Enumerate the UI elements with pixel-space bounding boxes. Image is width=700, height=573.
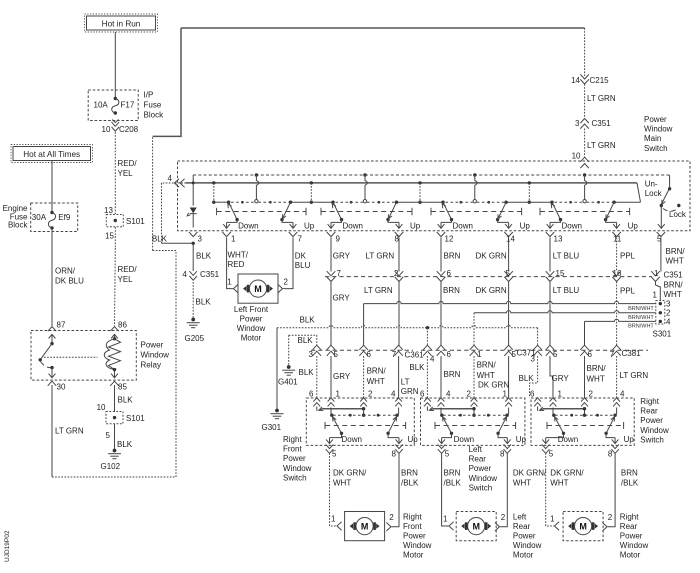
svg-text:F17: F17	[121, 101, 135, 110]
svg-text:2: 2	[394, 269, 399, 278]
svg-text:6: 6	[447, 269, 452, 278]
main switch pin 10 entry	[580, 157, 589, 168]
wire LT GRN C361-7 to RF switch	[399, 356, 419, 398]
svg-text:DK: DK	[295, 251, 307, 260]
svg-text:Right: Right	[620, 512, 639, 521]
svg-text:Switch: Switch	[640, 435, 664, 444]
svg-text:Power: Power	[141, 341, 164, 350]
svg-text:Power: Power	[640, 416, 663, 425]
svg-text:LT: LT	[401, 378, 410, 387]
wire BRN/WHT S301-2 branch	[474, 311, 656, 346]
svg-text:S301: S301	[653, 329, 672, 338]
svg-text:BRN/: BRN/	[664, 281, 684, 290]
un-lock switch	[645, 180, 687, 229]
svg-text:5: 5	[332, 450, 337, 459]
wire BRN/WHT C361-6 to RF switch	[364, 356, 387, 398]
switch common link 5	[614, 201, 640, 203]
door switch bottom pin numbers	[332, 450, 613, 459]
label Right Front Power Window Motor	[403, 512, 432, 559]
svg-text:4: 4	[430, 355, 435, 364]
connector C215	[571, 74, 609, 85]
svg-text:8: 8	[392, 450, 397, 459]
wire BRN/WHT S301-4 branch	[585, 319, 656, 345]
svg-text:LT GRN: LT GRN	[366, 251, 395, 260]
svg-text:Lock: Lock	[669, 210, 687, 219]
wire DK GRN/WHT LR sw to motor	[495, 453, 547, 531]
relay contact	[39, 334, 98, 378]
svg-text:M: M	[472, 521, 480, 531]
svg-text:DK GRN/: DK GRN/	[333, 469, 367, 478]
wire PPL pin11 to C351-16	[617, 238, 636, 272]
svg-text:G401: G401	[278, 377, 298, 386]
svg-text:Window: Window	[644, 125, 673, 134]
svg-text:S101: S101	[126, 217, 145, 226]
svg-text:BLK: BLK	[196, 297, 212, 306]
svg-text:6: 6	[588, 350, 593, 359]
svg-text:WHT: WHT	[666, 257, 684, 266]
junction pins 3+4 BLK	[192, 242, 195, 245]
wire BRN/BLK RR sw to motor	[602, 453, 639, 531]
svg-text:4: 4	[168, 174, 173, 183]
svg-text:8: 8	[500, 450, 505, 459]
splice S301 (dashed box)	[653, 301, 672, 339]
svg-text:BRN/: BRN/	[587, 364, 607, 373]
wire BLK relay 85 to S101	[97, 385, 134, 412]
wire LTBLU pin13 to C351-15	[550, 238, 579, 272]
label Left Rear Power Window Switch	[469, 445, 498, 492]
svg-text:87: 87	[57, 321, 66, 330]
svg-text:Up: Up	[628, 222, 639, 231]
node Hot at All Times	[11, 145, 93, 163]
svg-text:Main: Main	[644, 134, 661, 143]
svg-text:14: 14	[506, 234, 515, 243]
relay pin 87	[48, 321, 66, 332]
svg-text:1: 1	[231, 234, 236, 243]
svg-text:2: 2	[608, 513, 613, 522]
wire LT GRN bottom run	[52, 476, 176, 478]
svg-text:5: 5	[106, 431, 111, 440]
wire BLK C361-3 to RF switch	[299, 356, 317, 398]
switch common link 2	[291, 181, 334, 204]
wire PPL C351-16 to C381-7	[617, 282, 636, 346]
svg-text:Power: Power	[403, 532, 426, 541]
svg-text:BRN: BRN	[621, 469, 638, 478]
svg-text:DK GRN/: DK GRN/	[513, 469, 547, 478]
svg-text:5: 5	[549, 450, 554, 459]
svg-text:RED/: RED/	[118, 265, 138, 274]
wire BRN C351-6 to C371-6	[441, 282, 460, 347]
svg-text:RED/: RED/	[118, 159, 138, 168]
svg-text:Window: Window	[403, 541, 432, 550]
svg-text:BRN: BRN	[401, 469, 418, 478]
svg-text:5: 5	[553, 350, 558, 359]
label Power Window Main Switch	[644, 115, 673, 153]
left front power window motor	[234, 274, 278, 343]
svg-text:M: M	[254, 284, 262, 294]
relay coil	[104, 334, 120, 378]
svg-text:7: 7	[392, 350, 397, 359]
svg-text:4: 4	[182, 270, 187, 279]
svg-text:WHT: WHT	[333, 478, 351, 487]
wire BLK C371-4 to LR switch	[409, 356, 427, 398]
diode inside main switch	[187, 181, 197, 227]
svg-text:Front: Front	[283, 445, 302, 454]
power window main switch (dashed box)	[178, 161, 691, 231]
svg-text:M: M	[579, 521, 587, 531]
svg-text:4: 4	[391, 390, 396, 399]
wire GRY pin9 to C351-7	[331, 238, 351, 272]
svg-text:YEL: YEL	[118, 169, 134, 178]
svg-text:BLK: BLK	[300, 315, 316, 324]
svg-text:10: 10	[97, 403, 106, 412]
svg-text:BRN: BRN	[444, 251, 461, 260]
svg-text:Right: Right	[640, 397, 659, 406]
svg-text:BRN/: BRN/	[367, 366, 387, 375]
svg-text:Block: Block	[8, 221, 29, 230]
connector row C371 (dashed)	[421, 349, 530, 351]
svg-text:BLK: BLK	[299, 368, 315, 377]
wire DKGRN C351-5 to C371-5	[476, 282, 509, 347]
junction BLK to C371-4	[426, 326, 429, 346]
svg-text:Window: Window	[640, 426, 669, 435]
svg-text:C351: C351	[664, 271, 684, 280]
svg-text:3: 3	[666, 299, 671, 308]
bus A right corner	[669, 175, 671, 189]
svg-text:Un-: Un-	[645, 180, 658, 189]
svg-text:/BLK: /BLK	[621, 478, 639, 487]
svg-text:LT GRN: LT GRN	[364, 286, 393, 295]
svg-text:2: 2	[284, 277, 289, 286]
wire LT GRN to top bus	[153, 28, 181, 136]
svg-text:1: 1	[558, 390, 563, 399]
svg-text:Window: Window	[141, 351, 170, 360]
wire BRNWHT C351-1 to S301	[653, 281, 684, 301]
svg-text:2: 2	[368, 390, 373, 399]
svg-text:Down: Down	[558, 435, 578, 444]
wire DK GRN C371-5 to LR switch	[478, 356, 509, 398]
main switch bottom pin arrows and numbers	[189, 232, 665, 243]
svg-text:4: 4	[620, 390, 625, 399]
label Engine Fuse Block	[3, 204, 29, 230]
svg-text:LT GRN: LT GRN	[587, 141, 616, 150]
svg-text:BRN/WHT: BRN/WHT	[628, 324, 654, 330]
svg-text:Down: Down	[454, 435, 474, 444]
svg-text:G301: G301	[262, 423, 282, 432]
svg-text:C351: C351	[592, 119, 612, 128]
svg-text:BLK: BLK	[118, 396, 134, 405]
svg-text:Window: Window	[513, 541, 542, 550]
wire GRY C381-5 to RR switch	[550, 356, 569, 398]
svg-text:UJD19P02: UJD19P02	[4, 530, 11, 562]
svg-text:2: 2	[389, 513, 394, 522]
wire BRN/WHT C371-1 to LR switch	[474, 356, 496, 398]
svg-text:G102: G102	[101, 462, 121, 471]
svg-text:DK GRN/: DK GRN/	[550, 469, 584, 478]
svg-text:Fuse: Fuse	[144, 101, 162, 110]
svg-text:DK GRN: DK GRN	[478, 381, 509, 390]
wire LTBLU C351-15 to C381-5	[550, 282, 579, 347]
label Right Rear Power Window Switch	[640, 397, 669, 444]
wire BLK C351-4 to G205	[193, 282, 211, 319]
svg-text:11: 11	[613, 234, 622, 243]
connector C208	[102, 122, 139, 134]
svg-text:14: 14	[571, 76, 580, 85]
wire LT GRN C215 to C351	[585, 84, 616, 118]
svg-text:Up: Up	[516, 435, 527, 444]
wire BRN/WHT C381-6 to RR switch	[585, 356, 607, 398]
label Right Rear Power Window Motor	[620, 512, 649, 559]
relay pin 30	[48, 381, 66, 391]
svg-text:BLK: BLK	[519, 374, 535, 383]
svg-text:PPL: PPL	[620, 287, 636, 296]
svg-text:Down: Down	[453, 222, 473, 231]
S301 splice dots	[659, 299, 671, 326]
bus A upper corner left	[192, 175, 194, 206]
svg-text:15: 15	[105, 232, 114, 241]
svg-text:5: 5	[334, 350, 339, 359]
svg-text:1: 1	[653, 291, 658, 300]
svg-text:BLK: BLK	[196, 251, 212, 260]
svg-text:Right: Right	[283, 435, 302, 444]
main switch pin 4 entry	[162, 174, 187, 187]
svg-text:1: 1	[477, 350, 482, 359]
svg-text:BLK: BLK	[409, 363, 425, 372]
svg-text:BLK: BLK	[152, 235, 168, 244]
svg-text:LT GRN: LT GRN	[587, 94, 616, 103]
window switch group 2 (Down/Up)	[321, 173, 421, 230]
bus B (lower)	[186, 183, 641, 202]
right front power window switch	[306, 390, 418, 454]
connector row C351 (dashed)	[325, 276, 652, 278]
svg-text:Switch: Switch	[283, 473, 307, 482]
svg-text:Motor: Motor	[241, 334, 262, 343]
connector row C381 (dashed)	[531, 349, 648, 351]
svg-text:G205: G205	[185, 334, 205, 343]
wire BLK G401 loop	[289, 335, 317, 366]
svg-text:2: 2	[467, 390, 472, 399]
wire BLK ground bus	[277, 315, 538, 346]
svg-text:PPL: PPL	[620, 251, 636, 260]
svg-text:Hot at All Times: Hot at All Times	[23, 150, 80, 159]
power window relay (dashed box)	[31, 331, 136, 381]
connector C351 pin 3	[575, 119, 611, 129]
wire Hot at All Times to fuse Ef9	[51, 161, 53, 213]
svg-text:Motor: Motor	[513, 551, 534, 560]
wire LT GRN C351 to pin 10	[572, 129, 616, 161]
svg-text:5: 5	[506, 269, 511, 278]
wire BLK S101 to G102	[115, 424, 133, 449]
svg-text:Relay: Relay	[141, 361, 161, 370]
svg-text:1: 1	[654, 269, 659, 278]
switch common link 4	[506, 181, 552, 204]
engine fuse block (dashed box)	[31, 203, 78, 232]
svg-text:Power: Power	[240, 314, 263, 323]
svg-text:4: 4	[446, 390, 451, 399]
svg-text:Rear: Rear	[620, 522, 638, 531]
svg-text:Front: Front	[403, 522, 422, 531]
svg-text:Ef9: Ef9	[58, 213, 71, 222]
label Power Window Relay	[141, 341, 170, 370]
svg-text:Up: Up	[410, 222, 421, 231]
fuse Ef9 30A	[32, 211, 71, 230]
svg-text:DK BLU: DK BLU	[55, 277, 84, 286]
svg-text:15: 15	[556, 269, 565, 278]
svg-text:10: 10	[102, 125, 111, 134]
svg-text:30: 30	[57, 383, 66, 392]
wire BRN/BLK LR sw to motor	[442, 453, 462, 530]
wire LT GRN relay 30 down	[52, 385, 84, 477]
svg-text:Window: Window	[237, 324, 266, 333]
ground G205	[185, 318, 205, 343]
svg-text:16: 16	[613, 269, 622, 278]
svg-text:12: 12	[445, 234, 454, 243]
wire RED/YEL S101 to relay 86	[115, 227, 138, 326]
svg-text:1: 1	[503, 390, 508, 399]
wire LTGRN C351-2 to C361-7	[364, 282, 399, 346]
ground G301	[262, 409, 284, 432]
svg-text:C381: C381	[622, 349, 642, 358]
svg-text:Left: Left	[513, 512, 527, 521]
wire GRY C361-5 to RF switch	[331, 356, 351, 398]
svg-text:WHT: WHT	[477, 371, 495, 380]
pin 10 junction on bus A	[583, 173, 586, 176]
svg-text:6: 6	[420, 390, 425, 399]
right rear power window motor	[550, 512, 613, 541]
wire BLK to C351-4	[193, 243, 212, 271]
switch common link 3	[397, 181, 444, 204]
svg-text:LT GRN: LT GRN	[55, 426, 84, 435]
wire WHT/RED pin1 to LF motor	[227, 238, 249, 293]
relay pin 85	[110, 381, 127, 391]
svg-text:Switch: Switch	[469, 483, 493, 492]
svg-text:BRN: BRN	[444, 469, 461, 478]
svg-text:1: 1	[443, 514, 448, 523]
svg-text:7: 7	[610, 350, 615, 359]
C351 row pins	[327, 269, 683, 281]
svg-text:Up: Up	[408, 435, 419, 444]
svg-text:Switch: Switch	[644, 144, 668, 153]
splice S101 upper	[104, 206, 145, 241]
svg-text:3: 3	[198, 234, 203, 243]
svg-text:30A: 30A	[32, 213, 47, 222]
label I/P Fuse Block	[144, 91, 165, 120]
left rear power window switch	[420, 390, 527, 454]
svg-text:1: 1	[331, 514, 336, 523]
svg-text:RED: RED	[228, 260, 245, 269]
svg-text:Left: Left	[469, 445, 483, 454]
svg-text:Rear: Rear	[513, 522, 531, 531]
wire RED/YEL C208 to S101	[115, 132, 137, 214]
svg-text:WHT/: WHT/	[228, 250, 249, 259]
svg-text:Power: Power	[283, 454, 306, 463]
svg-text:C361: C361	[405, 351, 425, 360]
svg-text:BRN: BRN	[444, 370, 461, 379]
svg-text:Window: Window	[469, 474, 498, 483]
svg-text:6: 6	[530, 390, 535, 399]
svg-text:DK GRN: DK GRN	[476, 251, 507, 260]
label Right Front Power Window Switch	[283, 435, 312, 482]
svg-text:C215: C215	[590, 76, 610, 85]
relay pin 86	[110, 321, 127, 332]
wire Hot in Run to fuse F17	[114, 32, 116, 98]
wire BRN/WHT S301-3 branch	[364, 301, 656, 345]
wire BLK C381-3 to RR switch	[519, 356, 538, 398]
bus A (upper)	[193, 174, 669, 176]
svg-text:Power: Power	[620, 532, 643, 541]
svg-text:6: 6	[447, 350, 452, 359]
svg-text:7: 7	[298, 234, 303, 243]
svg-text:C371: C371	[517, 349, 537, 358]
door connector row pins	[309, 345, 642, 363]
wire BRNWHT pin5 to C351-1	[661, 238, 685, 272]
svg-text:WHT: WHT	[587, 375, 605, 384]
svg-text:Motor: Motor	[620, 551, 641, 560]
svg-text:2: 2	[589, 390, 594, 399]
svg-text:/BLK: /BLK	[401, 478, 419, 487]
svg-text:YEL: YEL	[118, 275, 134, 284]
wire DK BLU pin7 to LF motor	[278, 238, 311, 293]
svg-text:Down: Down	[342, 435, 362, 444]
svg-text:BLK: BLK	[117, 440, 133, 449]
svg-text:Up: Up	[624, 435, 635, 444]
svg-text:ORN/: ORN/	[55, 267, 76, 276]
svg-text:Rear: Rear	[469, 455, 487, 464]
svg-text:GRN: GRN	[401, 387, 419, 396]
svg-text:Power: Power	[513, 532, 536, 541]
svg-text:Motor: Motor	[403, 551, 424, 560]
svg-text:GRY: GRY	[333, 251, 351, 260]
wire DK GRN/WHT RR sw to motor	[546, 453, 585, 530]
svg-text:WHT: WHT	[664, 290, 682, 299]
label Left Rear Power Window Motor	[513, 512, 542, 559]
svg-text:2: 2	[501, 513, 506, 522]
svg-text:Right: Right	[403, 512, 422, 521]
svg-text:BLU: BLU	[295, 261, 311, 270]
svg-text:BRN/: BRN/	[477, 361, 497, 370]
svg-text:LT GRN: LT GRN	[620, 371, 649, 380]
connector row C361 (dashed)	[311, 349, 413, 351]
svg-text:Power: Power	[644, 115, 667, 124]
left rear power window motor	[443, 512, 506, 541]
switch common link 1	[212, 181, 229, 204]
svg-text:86: 86	[118, 321, 127, 330]
svg-text:6: 6	[367, 350, 372, 359]
wire to ground G301	[276, 328, 278, 410]
svg-text:GRY: GRY	[333, 294, 351, 303]
window switch group 1 (Down/Up)	[217, 173, 315, 230]
svg-text:GRY: GRY	[552, 374, 570, 383]
wire DKGRN pin14 to C351-5	[476, 238, 509, 272]
svg-text:1: 1	[227, 277, 232, 286]
wire ORN/DK BLU to relay 87	[52, 228, 84, 326]
svg-text:2: 2	[666, 308, 671, 317]
svg-text:BRN/: BRN/	[666, 247, 686, 256]
splice S101 lower	[106, 412, 146, 441]
wire LT GRN drop to C215	[584, 28, 586, 76]
wire BRN C371-6 to LR switch	[441, 356, 461, 398]
wire LT GRN top bus	[181, 27, 585, 29]
svg-text:3: 3	[309, 350, 314, 359]
svg-text:LT BLU: LT BLU	[553, 251, 580, 260]
window switch group 4 (Down/Up)	[540, 175, 638, 231]
wire LTGRN pin8 to C351-2	[366, 238, 400, 272]
svg-text:BRN/WHT: BRN/WHT	[628, 315, 654, 321]
svg-text:Up: Up	[520, 222, 531, 231]
wire LT GRN riser	[153, 136, 176, 477]
svg-text:Hot in Run: Hot in Run	[102, 20, 141, 29]
svg-text:Rear: Rear	[640, 407, 658, 416]
svg-text:C208: C208	[119, 125, 139, 134]
